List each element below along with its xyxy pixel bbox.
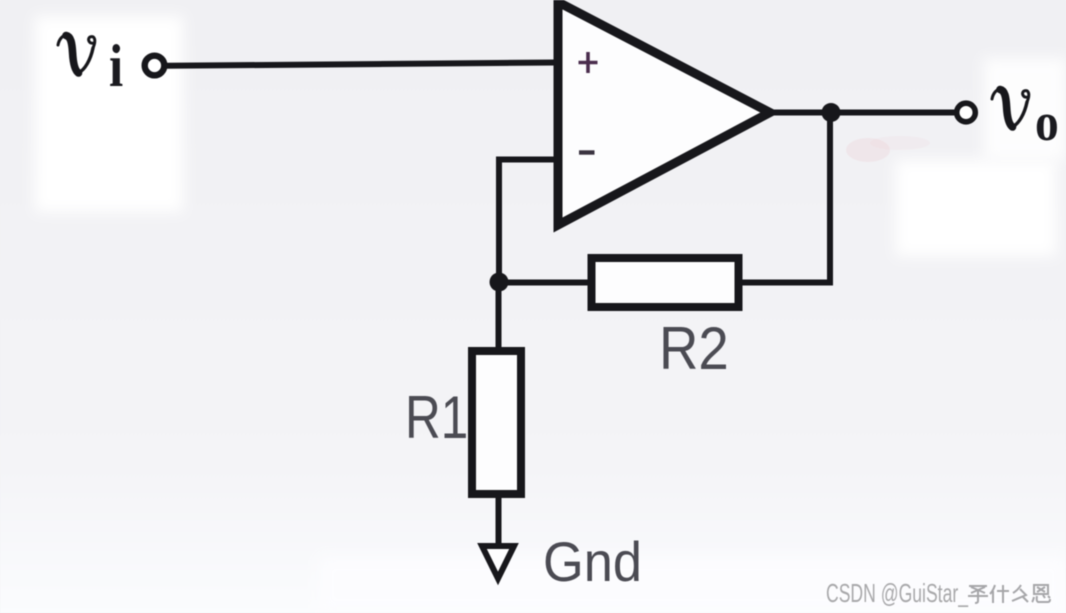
svg-text:o: o <box>1035 93 1059 152</box>
svg-text:Gnd: Gnd <box>543 531 642 593</box>
svg-text:CSDN @GuiStar_: CSDN @GuiStar_ <box>826 578 968 608</box>
svg-text:i: i <box>109 33 123 100</box>
svg-text:R2: R2 <box>659 316 729 383</box>
svg-text:R1: R1 <box>405 383 468 451</box>
